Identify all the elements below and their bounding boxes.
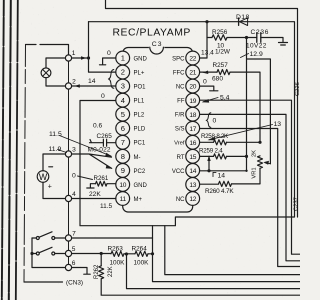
svg-text:R257: R257 xyxy=(213,62,229,69)
node CN3 terminal 1 xyxy=(65,50,75,61)
svg-text:RT: RT xyxy=(177,155,185,161)
svg-text:PLD: PLD xyxy=(134,127,146,133)
svg-text:S/S: S/S xyxy=(175,127,185,133)
leader 11.5 to pin8 xyxy=(60,136,112,157)
node CN3 terminal 4 xyxy=(65,191,76,202)
svg-text:PL2: PL2 xyxy=(134,113,145,119)
svg-text:W: W xyxy=(39,172,48,182)
node CN3 terminal 3 xyxy=(65,146,76,157)
svg-text:C3: C3 xyxy=(152,41,163,48)
resistor R263 100K xyxy=(108,246,127,267)
wire connector CN3 line xyxy=(68,52,70,264)
svg-text:4: 4 xyxy=(121,96,125,105)
diode D18 xyxy=(239,18,248,26)
svg-text:22K: 22K xyxy=(108,266,114,277)
wire bus from R263/R264 node xyxy=(127,254,301,288)
svg-text:R261: R261 xyxy=(94,175,109,182)
resistor R260 4.7K xyxy=(200,181,260,195)
svg-text:14: 14 xyxy=(189,168,196,175)
pin 8 M- left xyxy=(116,149,141,163)
svg-text:FFC: FFC xyxy=(173,70,185,76)
resistor R258 8.2K xyxy=(200,133,260,145)
svg-text:VR1: VR1 xyxy=(252,167,258,178)
svg-text:R259 2.4: R259 2.4 xyxy=(199,148,223,155)
op-amp IC3 REC/PLAYAMP body xyxy=(123,48,193,213)
svg-text:13: 13 xyxy=(274,121,282,128)
svg-text:10V22: 10V22 xyxy=(246,43,267,50)
svg-text:22: 22 xyxy=(189,56,196,63)
capacitor C265 xyxy=(90,139,116,146)
pin 6 PLD left xyxy=(116,121,146,135)
svg-text:R263: R263 xyxy=(108,246,124,253)
svg-text:6: 6 xyxy=(72,260,76,267)
ground terminal6 xyxy=(72,268,90,275)
wire supply rail xyxy=(80,22,295,226)
svg-text:8: 8 xyxy=(121,152,125,161)
wire terminal5 to R263 xyxy=(72,253,111,255)
svg-text:14: 14 xyxy=(88,78,96,85)
svg-text:5: 5 xyxy=(72,246,76,253)
svg-text:R256: R256 xyxy=(212,29,228,36)
wire pin14 VCC to 12.9 bus xyxy=(200,170,247,172)
svg-text:PC2: PC2 xyxy=(134,169,146,175)
svg-text:11: 11 xyxy=(120,196,127,203)
svg-text:D18: D18 xyxy=(236,14,250,21)
wire pin19 FF to right edge xyxy=(200,100,300,254)
svg-text:REC/PLAYAMP: REC/PLAYAMP xyxy=(113,28,191,39)
svg-text:19: 19 xyxy=(189,98,196,105)
svg-text:15: 15 xyxy=(189,154,196,161)
svg-text:PO1: PO1 xyxy=(134,85,147,91)
brace pins 18-17 xyxy=(206,113,211,128)
wire pin18 F/R to right edge xyxy=(200,114,300,260)
svg-text:M+: M+ xyxy=(134,197,143,203)
pin 1 GND left xyxy=(116,51,148,65)
pin 16 Vref right xyxy=(174,135,200,149)
svg-text:(CN3): (CN3) xyxy=(66,280,83,287)
switch S5 xyxy=(36,247,55,255)
svg-text:M-: M- xyxy=(134,155,141,161)
ground pin20 xyxy=(200,86,218,91)
IC3 tab xyxy=(150,47,164,49)
wire pin15 to pin14 tie xyxy=(208,156,210,170)
pin 15 RT right xyxy=(177,149,200,163)
svg-text:GND: GND xyxy=(134,183,148,189)
wire switch rail to terminal6 xyxy=(32,238,65,268)
resistor R264 100K xyxy=(127,246,153,267)
wire bus from junction A xyxy=(165,226,300,275)
svg-text:C236: C236 xyxy=(251,29,270,36)
svg-text:6: 6 xyxy=(121,124,125,133)
svg-text:0: 0 xyxy=(203,79,207,86)
wire rail down to pin2 PL+ xyxy=(89,22,116,72)
svg-text:2: 2 xyxy=(72,78,76,85)
svg-text:680: 680 xyxy=(212,76,223,83)
svg-text:4: 4 xyxy=(72,191,76,198)
wire terminal4 to pin11 M+ xyxy=(72,198,116,200)
pin 5 PL2 left xyxy=(116,107,145,121)
svg-text:3: 3 xyxy=(72,146,76,153)
wire lamp to terminals 1,2 xyxy=(46,58,65,86)
lamp xyxy=(41,68,51,78)
svg-text:14: 14 xyxy=(218,173,226,180)
node CN3 terminal 6 xyxy=(65,260,75,271)
svg-text:11.5: 11.5 xyxy=(49,131,62,138)
pin 20 NC right xyxy=(176,79,200,93)
svg-text:2K: 2K xyxy=(252,150,258,157)
page margin line 3 xyxy=(16,0,18,300)
svg-text:M0-022: M0-022 xyxy=(88,147,111,154)
wire bus from junction B xyxy=(153,226,301,282)
svg-text:13.4: 13.4 xyxy=(201,50,214,57)
wire 12.9 bus xyxy=(247,38,271,171)
ground pin1 with 0 xyxy=(100,58,116,65)
pin 21 FFC right xyxy=(173,65,200,79)
svg-text:0: 0 xyxy=(213,118,217,125)
svg-text:2: 2 xyxy=(121,68,125,77)
svg-text:R264: R264 xyxy=(132,246,148,253)
node supply/R256 junction xyxy=(205,20,208,23)
wire terminal1 to rail xyxy=(72,57,89,59)
motor M xyxy=(37,167,52,191)
svg-text:12: 12 xyxy=(189,196,196,203)
svg-text:0.6: 0.6 xyxy=(93,123,102,130)
node 12.9 junction xyxy=(245,36,248,39)
svg-text:5: 5 xyxy=(121,110,125,119)
svg-text:1: 1 xyxy=(121,54,125,63)
pin 13 (nc) right xyxy=(186,178,200,192)
pin 10 GND left xyxy=(116,178,148,192)
ground C236 xyxy=(279,43,288,46)
wire terminal3 fork to pin8 pin9 xyxy=(72,154,112,168)
svg-text:11.9: 11.9 xyxy=(49,146,62,153)
svg-text:C226: C226 xyxy=(295,82,300,96)
svg-text:20: 20 xyxy=(189,84,196,91)
resistor R257 680 xyxy=(200,62,260,142)
pin 4 PL1 left xyxy=(116,93,145,107)
potentiometer VR1 2K xyxy=(252,150,271,184)
resistor R261 22K xyxy=(87,175,116,198)
svg-text:10: 10 xyxy=(119,182,126,189)
wire terminal7 to bus B xyxy=(72,237,153,239)
svg-text:C265: C265 xyxy=(97,133,113,140)
svg-text:5.4: 5.4 xyxy=(220,95,230,102)
wire terminal5 row xyxy=(32,253,65,255)
resistor R262 22K xyxy=(94,254,300,296)
svg-text:3: 3 xyxy=(121,82,125,91)
pin 18 F/R right xyxy=(175,107,200,121)
svg-text:7: 7 xyxy=(121,138,125,147)
pin 9 PC2 left xyxy=(116,164,146,178)
svg-text:7: 7 xyxy=(72,231,76,238)
pin 2 PL+ left xyxy=(116,65,145,79)
svg-text:+: + xyxy=(48,184,52,191)
svg-text:NC: NC xyxy=(176,85,185,91)
svg-text:SPC: SPC xyxy=(172,56,185,62)
node CN3 terminal 2 xyxy=(65,78,76,89)
svg-text:VCC: VCC xyxy=(172,169,185,175)
svg-text:R260 4.7K: R260 4.7K xyxy=(205,188,234,195)
svg-text:PC1: PC1 xyxy=(134,141,146,147)
svg-text:0: 0 xyxy=(107,50,111,57)
page margin line 1 xyxy=(2,0,4,300)
svg-text:1: 1 xyxy=(72,50,76,57)
label 14 xyxy=(213,172,216,176)
resistor R256 xyxy=(200,22,247,58)
pin 19 FF right xyxy=(177,93,199,107)
svg-text:22K: 22K xyxy=(89,191,101,198)
pin 22 SPC right xyxy=(172,51,199,65)
wire terminal7 row xyxy=(32,237,65,239)
svg-text:F/R: F/R xyxy=(175,113,185,119)
pin 3 PO1 left xyxy=(116,79,146,93)
svg-text:R258-8.2K: R258-8.2K xyxy=(201,133,229,140)
svg-text:FF: FF xyxy=(177,99,185,105)
svg-text:17: 17 xyxy=(189,126,196,133)
svg-text:12.9: 12.9 xyxy=(250,51,263,58)
svg-text:Vref: Vref xyxy=(174,141,185,147)
svg-text:9: 9 xyxy=(121,166,125,175)
svg-text:0: 0 xyxy=(101,93,105,100)
svg-text:NC: NC xyxy=(176,197,185,203)
svg-text:GND: GND xyxy=(134,56,148,62)
brace pins 2-3 xyxy=(108,70,113,89)
wire partial box top xyxy=(106,0,298,217)
page margin line 2 xyxy=(9,0,11,300)
wire top-left to CN3 pin1 and bottom xyxy=(26,45,69,55)
svg-text:11.5: 11.5 xyxy=(100,203,113,210)
svg-text:R262: R262 xyxy=(94,264,100,279)
switch S7 xyxy=(36,232,55,240)
pin 14 VCC right xyxy=(172,164,200,178)
svg-text:13: 13 xyxy=(189,182,196,189)
svg-text:PL1: PL1 xyxy=(134,99,145,105)
svg-text:18: 18 xyxy=(189,112,196,119)
svg-text:C237: C237 xyxy=(294,197,300,211)
pin 11 M+ left xyxy=(116,192,143,206)
resistor R259 2.4 xyxy=(199,148,247,160)
svg-text:PL+: PL+ xyxy=(134,70,145,76)
node CN3 terminal 5 xyxy=(65,246,75,257)
node CN3 terminal 7 xyxy=(65,231,76,241)
pin 17 S/S right xyxy=(175,121,200,135)
svg-text:16: 16 xyxy=(189,140,196,147)
wire terminal2 to pin3 PO1 xyxy=(72,85,116,87)
pin 7 PC1 left xyxy=(116,135,146,149)
svg-text:1/2W: 1/2W xyxy=(215,49,231,56)
svg-text:100K: 100K xyxy=(110,260,126,267)
wire motor to terminals 3,4 xyxy=(43,154,65,199)
capacitor C236 xyxy=(246,29,283,50)
svg-text:0: 0 xyxy=(72,173,76,180)
svg-text:100K: 100K xyxy=(134,260,150,267)
wire pin17 S/S to right edge xyxy=(200,129,300,267)
svg-text:21: 21 xyxy=(189,70,196,77)
pin 12 NC right xyxy=(176,192,200,206)
